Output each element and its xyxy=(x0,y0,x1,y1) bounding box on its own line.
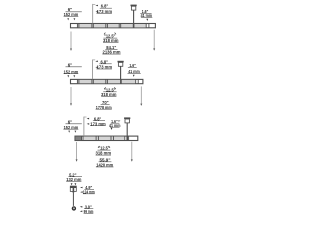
right ext line d3 xyxy=(131,142,133,162)
leader marks 12.5in d3 xyxy=(98,146,99,148)
arrow 132mm right d4 xyxy=(75,183,77,185)
ext line 6.8in d2 xyxy=(93,60,98,80)
ext line 6.8in d3 xyxy=(84,117,89,136)
arrow 124mm d4 xyxy=(80,191,83,193)
bar rail 1 xyxy=(71,24,156,28)
left ext line d2 xyxy=(70,87,72,105)
arrow 41mm d1 xyxy=(146,19,148,21)
canopy 2 with stem xyxy=(118,61,124,80)
arrow 6in right d3 xyxy=(75,131,77,133)
arrow 4.9in d4 xyxy=(80,187,83,189)
arrow 6in right d2 xyxy=(73,75,75,77)
right ext line d1 xyxy=(153,30,155,51)
ext line 6.8in d1 xyxy=(93,4,98,24)
canopy detail d4 xyxy=(70,186,77,193)
arrow 132mm left d4 xyxy=(71,183,73,185)
left ext line d3 xyxy=(76,142,78,161)
arrow 6in left d1 xyxy=(67,18,69,20)
arrow to canopy d3 xyxy=(118,120,120,121)
ball d4 xyxy=(72,206,76,210)
arrow 6in left d3 xyxy=(68,131,70,133)
arrow 3.9in d4 xyxy=(80,206,83,208)
leader marks 12.5in d2 xyxy=(104,87,105,89)
bar rail 2 xyxy=(71,79,143,83)
canopy 1 with stem xyxy=(131,5,137,24)
arrow 99mm d4 xyxy=(80,211,83,213)
left ext line d1 xyxy=(70,32,72,51)
arrow 41mm d3 xyxy=(111,128,113,130)
arrow 6in left d2 xyxy=(67,75,69,77)
canopy 3 with stem xyxy=(124,117,130,136)
bar rail 3 xyxy=(75,136,138,140)
stem d4 xyxy=(72,193,74,206)
arrow 6in right d1 xyxy=(74,18,76,20)
leader marks 12.5in d1 xyxy=(104,33,105,35)
arrow 41mm d2 xyxy=(133,75,135,77)
right ext line d2 xyxy=(140,86,142,105)
